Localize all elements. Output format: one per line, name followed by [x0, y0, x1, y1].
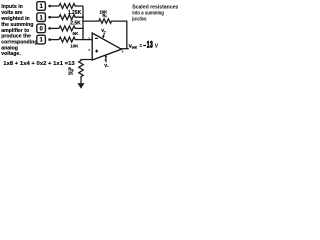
note: right caption text — [132, 5, 179, 23]
plus input sign — [95, 50, 98, 53]
input box bit2 value 1 — [37, 13, 46, 22]
svg-text:Scaled resistances: Scaled resistances — [132, 5, 178, 11]
wire row1 — [50, 5, 59, 7]
svg-text:voltage.: voltage. — [1, 51, 21, 57]
svg-text:1K: 1K — [68, 71, 73, 76]
wire summing bus — [82, 6, 84, 40]
svg-text:Vout: Vout — [129, 44, 138, 50]
node dot row1 — [48, 5, 51, 8]
resistor Rf feedback 10K — [83, 9, 127, 48]
resistor R 2.5K — [59, 15, 83, 27]
wire output — [121, 48, 129, 50]
net Vout label — [129, 39, 159, 50]
svg-text:V: V — [155, 44, 159, 50]
note: left caption text — [0, 4, 37, 57]
svg-text:V−: V− — [104, 63, 109, 69]
svg-text:10K: 10K — [70, 44, 79, 49]
svg-text:junction.: junction. — [132, 17, 148, 23]
input box bit0 value 1 — [37, 35, 46, 44]
resistor RB 1K — [68, 61, 83, 79]
input box bit3 value 1 — [37, 2, 46, 11]
input box bit1 value 0 — [37, 24, 46, 33]
node bus-feedback junction — [82, 20, 84, 22]
node bus-row2 junction — [82, 16, 84, 18]
node dot row3 — [48, 27, 51, 30]
wire row3 — [50, 27, 59, 29]
node bus-row3 junction — [82, 28, 84, 30]
wire row2 — [50, 16, 59, 18]
resistor R 5K — [59, 26, 83, 36]
svg-text:2.5K: 2.5K — [70, 21, 81, 27]
V- supply arrow — [105, 55, 107, 63]
wire noninverting input — [81, 60, 92, 61]
svg-text:=: = — [139, 44, 142, 49]
svg-text:5K: 5K — [73, 31, 80, 36]
V+ supply arrow — [102, 33, 105, 39]
node dot row4 — [48, 38, 51, 41]
op-amp U1 — [92, 33, 121, 60]
wire row4 — [50, 39, 59, 41]
svg-text:Rf: Rf — [102, 13, 106, 19]
svg-text:13: 13 — [147, 39, 153, 50]
svg-text:V+: V+ — [101, 28, 106, 34]
wire inverting input — [83, 39, 92, 41]
minus input sign — [95, 38, 98, 39]
node dot row2 — [48, 16, 51, 19]
svg-text:1x8 + 1x4 + 0x2 + 1x1 =13: 1x8 + 1x4 + 0x2 + 1x1 =13 — [3, 61, 75, 67]
resistor R 1.25K — [59, 4, 83, 16]
ground arrow — [78, 79, 85, 89]
resistor R 10K input — [59, 37, 83, 48]
